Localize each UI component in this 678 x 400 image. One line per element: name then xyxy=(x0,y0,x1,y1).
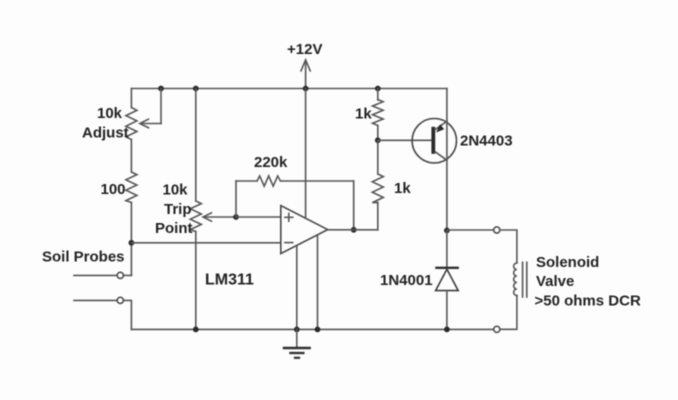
wire feedback left vertical xyxy=(235,181,237,217)
wire 1k top to base node xyxy=(377,126,379,141)
node: op-amp pin4 / rail junction xyxy=(315,327,321,333)
wire left trunk upper xyxy=(130,89,132,108)
wire op-amp output xyxy=(328,229,378,231)
svg-text:10k: 10k xyxy=(97,105,123,122)
node: base node junction xyxy=(375,137,381,143)
wire minus input xyxy=(131,242,280,244)
op-amp U1 LM311 xyxy=(205,206,328,289)
wire trip pot from rail xyxy=(195,89,197,202)
terminal solenoid bottom xyxy=(494,326,500,332)
svg-text:10k: 10k xyxy=(163,182,189,199)
potentiometer R1 10k Adjust xyxy=(82,89,161,142)
terminal probe 1 xyxy=(117,272,123,278)
wire diode to bottom rail xyxy=(446,291,448,330)
wire feedback right vertical xyxy=(353,181,355,230)
wire op-amp ground pin 4 xyxy=(317,235,319,330)
potentiometer R3 10k Trip Point xyxy=(155,182,236,238)
svg-text:Point: Point xyxy=(155,220,193,237)
svg-text:Adjust: Adjust xyxy=(82,125,129,142)
resistor R5 1k (top) xyxy=(355,100,383,126)
inductor L1 solenoid coil xyxy=(514,262,527,297)
resistor R2 100 xyxy=(101,172,137,203)
wire trunk down to minus input and probe xyxy=(130,203,132,276)
svg-text:Valve: Valve xyxy=(536,273,574,290)
power +12V symbol xyxy=(287,41,322,89)
node: trip pot / rail junction xyxy=(193,327,199,333)
node: rail junction for adjust wiper xyxy=(158,86,164,92)
ground symbol xyxy=(284,329,310,357)
node: rail junction +12V xyxy=(303,86,309,92)
svg-text:Soil Probes: Soil Probes xyxy=(42,249,125,266)
svg-text:LM311: LM311 xyxy=(205,272,254,289)
wire feedback right horizontal xyxy=(282,180,354,182)
wire 1k top lead from rail xyxy=(377,89,379,101)
node: trunk / minus input junction xyxy=(129,240,135,246)
wire op-amp V+ from rail xyxy=(305,89,307,219)
node: op-amp pin1 / rail junction xyxy=(294,327,300,333)
svg-text:1k: 1k xyxy=(394,180,411,197)
wire top +12V rail xyxy=(131,88,447,90)
wire trip pot to bottom rail xyxy=(195,232,197,330)
node: rail junction for trip pot xyxy=(193,86,199,92)
wire to solenoid top terminal xyxy=(447,229,494,231)
wire solenoid bottom xyxy=(500,296,517,330)
svg-text:2N4403: 2N4403 xyxy=(460,133,513,150)
svg-text:Solenoid: Solenoid xyxy=(536,254,599,271)
terminal solenoid top xyxy=(494,227,500,233)
svg-text:1N4001: 1N4001 xyxy=(380,272,433,289)
svg-text:+12V: +12V xyxy=(287,41,322,58)
wire op-amp ground pin 1 xyxy=(296,246,298,330)
wire 1k bottom to output line xyxy=(377,203,379,230)
wire base lead xyxy=(378,139,432,141)
node: plus input / wiper / feedback junction xyxy=(233,214,239,220)
wire probe 1 lead xyxy=(74,274,117,276)
svg-text:Trip: Trip xyxy=(164,201,192,218)
wire plus input xyxy=(236,216,281,218)
wire probe 2 to bottom rail xyxy=(123,300,131,329)
node: rail junction 1k xyxy=(375,86,381,92)
wire collector/emitter vertical xyxy=(446,89,448,231)
node: diode / rail junction xyxy=(444,327,450,333)
wire probe 1 to trunk xyxy=(123,274,131,276)
wire feedback left horizontal xyxy=(236,180,257,182)
svg-text:100: 100 xyxy=(101,181,126,198)
node: feedback / output junction xyxy=(351,227,357,233)
wire collector down to diode xyxy=(446,230,448,267)
node: collector / solenoid junction xyxy=(444,228,450,234)
wire trunk between pots xyxy=(130,140,132,173)
svg-text:1k: 1k xyxy=(355,106,372,123)
diode D1 1N4001 xyxy=(380,268,458,291)
resistor R4 220k xyxy=(254,154,288,186)
wire probe 2 lead xyxy=(74,299,117,301)
label solenoid valve xyxy=(535,254,641,310)
terminal probe 2 xyxy=(117,297,123,303)
transistor Q1 2N4403 xyxy=(412,119,512,163)
wire solenoid top xyxy=(500,230,517,263)
svg-text:>50 ohms DCR: >50 ohms DCR xyxy=(535,293,641,310)
svg-text:220k: 220k xyxy=(254,154,288,171)
wire bottom ground rail xyxy=(131,328,493,330)
resistor R6 1k (bottom) xyxy=(372,140,411,202)
